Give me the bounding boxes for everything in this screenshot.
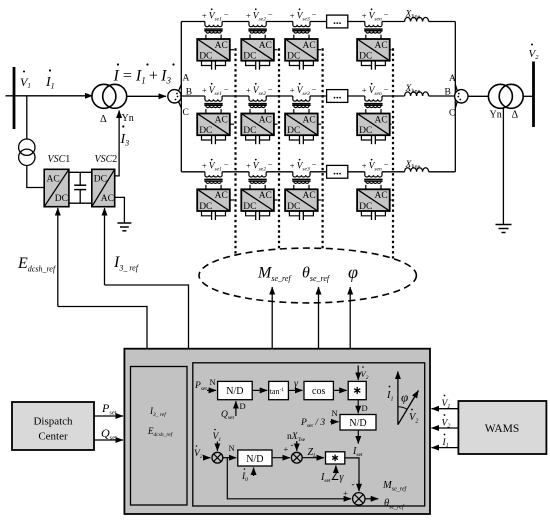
svg-text:N: N xyxy=(210,377,216,387)
series transformer TB4 xyxy=(364,96,382,114)
svg-text:AC: AC xyxy=(215,191,228,201)
svg-text:DC: DC xyxy=(287,202,300,212)
svg-text:VSC2: VSC2 xyxy=(95,154,118,165)
label +Vse3- of module A3 xyxy=(290,8,317,22)
svg-text:AC: AC xyxy=(302,191,315,201)
wire mult-circle1 to ND3 xyxy=(223,457,237,459)
wire V2 from WAMS xyxy=(432,427,459,429)
label V2 wams xyxy=(442,414,451,429)
svg-text:DC: DC xyxy=(94,175,107,185)
wire E_dcsh_ref routing xyxy=(58,307,147,349)
svg-text:AC: AC xyxy=(374,41,387,51)
svg-text:+: + xyxy=(362,161,367,171)
wire mult3 output corner xyxy=(345,458,359,491)
label B left xyxy=(186,87,192,97)
wire shunt tap down xyxy=(26,96,28,139)
node splitter left (3-phase) xyxy=(168,90,181,103)
dashed ellipse (modulation references) xyxy=(199,248,416,303)
feedback wire to output sum xyxy=(227,458,351,499)
wire V2 to mult-circle 1 xyxy=(204,457,211,459)
label V1 xyxy=(20,71,31,91)
svg-text:φ: φ xyxy=(401,390,408,405)
block N/D 3 xyxy=(238,450,272,466)
svg-text:N/D: N/D xyxy=(349,418,366,429)
label P_set input xyxy=(101,401,117,417)
label VSC2 xyxy=(95,154,118,165)
svg-text:B: B xyxy=(445,87,451,97)
svg-text:+: + xyxy=(202,85,207,95)
label N at ND3 xyxy=(229,443,235,453)
svg-text:AC: AC xyxy=(259,41,272,51)
svg-text:-: - xyxy=(291,440,294,450)
converter AC/DC block B4 xyxy=(357,114,390,137)
dc-link dotted line 4 xyxy=(392,48,394,258)
label I0 dot xyxy=(241,468,248,483)
label +Vsen- of module C4 xyxy=(362,159,389,173)
svg-text:N/D: N/D xyxy=(226,386,243,397)
wire cos to mult1 xyxy=(333,389,346,391)
wire nXTse into sum (arrow down) xyxy=(296,441,298,451)
label Yn of TR1 xyxy=(122,113,134,124)
dc-link stub B4 xyxy=(390,123,392,125)
control signal E_dcsh_ref to VSC1 (arrow up) xyxy=(57,208,59,307)
label X_line phase C xyxy=(405,160,421,171)
svg-text:Yn: Yn xyxy=(490,110,502,121)
label N at ND2 xyxy=(332,408,338,418)
label phi in ellipse xyxy=(348,262,358,282)
svg-text:AC: AC xyxy=(259,191,272,201)
label X_line phase A xyxy=(405,10,421,21)
wire sum to mult3 xyxy=(302,457,324,459)
wire TR3 to VSC1 xyxy=(27,166,44,188)
wire right vertical feeder xyxy=(454,22,456,172)
svg-text:−: − xyxy=(268,9,273,19)
wire I1 from WAMS xyxy=(432,447,459,449)
wire P_set to ND1 xyxy=(207,389,216,391)
svg-text:AC: AC xyxy=(302,41,315,51)
svg-text:...: ... xyxy=(333,15,342,27)
series transformer TB3 xyxy=(292,96,310,114)
wire TR2 to bus V2 xyxy=(523,95,533,97)
wire Pset3 to ND2 xyxy=(330,421,339,423)
converter VSC1 xyxy=(44,169,69,206)
dc-link stub B2 xyxy=(274,123,278,125)
wire VSC2 to I3 riser xyxy=(115,171,119,176)
label P_set xyxy=(194,381,207,392)
label Z_L xyxy=(308,447,317,459)
wire V1 from WAMS xyxy=(432,408,459,410)
series transformer TB1 xyxy=(204,96,222,114)
dc-link stub A1 xyxy=(230,49,234,51)
dc link capacitor xyxy=(74,172,86,203)
svg-text:DC: DC xyxy=(359,202,372,212)
svg-text:+: + xyxy=(202,161,207,171)
line reactance X_line phase B xyxy=(405,92,429,96)
svg-text:D: D xyxy=(362,403,368,413)
label plus at output sum xyxy=(343,488,348,498)
svg-text:+: + xyxy=(290,161,295,171)
converter AC/DC block C2 xyxy=(241,189,274,212)
series transformer TC1 xyxy=(204,172,222,189)
block arctan xyxy=(269,381,289,399)
label I3_ref xyxy=(113,254,140,273)
wire node to TR2 xyxy=(468,95,489,97)
label V2 at mult1 xyxy=(361,366,369,381)
svg-text:DC: DC xyxy=(359,126,372,136)
dc link wires xyxy=(69,172,92,203)
svg-text:-: - xyxy=(352,479,355,489)
block N/D 2 xyxy=(340,415,376,431)
svg-text:AC: AC xyxy=(47,175,60,185)
svg-text:DC: DC xyxy=(199,126,212,136)
wire output arrow xyxy=(365,498,378,500)
svg-text:VSC1: VSC1 xyxy=(48,154,71,165)
series transformer TC3 xyxy=(292,172,310,189)
svg-text:...: ... xyxy=(333,165,342,177)
dc-link stub C1 xyxy=(230,199,234,201)
svg-text:+: + xyxy=(284,444,289,454)
svg-text:−: − xyxy=(224,84,229,94)
label +Vse3- of module C3 xyxy=(290,159,317,173)
label M_se_ref in ellipse xyxy=(257,265,292,284)
label +Vsen- of module A4 xyxy=(362,8,389,22)
converter AC/DC block B3 xyxy=(285,114,318,137)
svg-text:A: A xyxy=(183,74,190,84)
svg-text:D: D xyxy=(240,401,246,411)
label M_se_ref output xyxy=(382,480,408,493)
svg-text:AC: AC xyxy=(259,115,272,125)
converter AC/DC block C1 xyxy=(197,189,230,212)
wire mult1 to ND2 (arrow down) xyxy=(357,400,359,414)
label C right xyxy=(449,109,455,119)
label plus at sum xyxy=(284,444,289,454)
label +Vsen- of module B4 xyxy=(362,83,389,97)
phase C line xyxy=(181,171,455,173)
ellipsis box phase A xyxy=(327,15,348,28)
label +Vse1- of module C1 xyxy=(202,159,229,173)
dc-link dotted line 3 xyxy=(322,48,324,248)
svg-text:+: + xyxy=(246,161,251,171)
svg-text:C: C xyxy=(183,108,189,118)
wire ND1 to atan xyxy=(252,389,267,391)
svg-text:−: − xyxy=(312,84,317,94)
dc capacitor A3 xyxy=(289,61,313,70)
label P_set/3 xyxy=(300,418,325,429)
dc-link stub A3 xyxy=(318,49,321,51)
label Yn of TR2 xyxy=(490,110,502,121)
converter AC/DC block B2 xyxy=(241,114,274,137)
svg-text:+: + xyxy=(246,85,251,95)
phase A line xyxy=(181,21,455,23)
svg-text:+: + xyxy=(202,10,207,20)
label V1 wams xyxy=(442,395,451,410)
multiplier circle 1 xyxy=(212,452,223,463)
inner box references xyxy=(131,367,188,506)
series transformer TA1 xyxy=(204,22,222,40)
label X_line phase B xyxy=(405,84,421,95)
svg-text:+: + xyxy=(362,85,367,95)
label +Vse2- of module C2 xyxy=(246,159,273,173)
dc-link dotted line 1 xyxy=(234,48,236,255)
wire right node to phase C xyxy=(455,102,457,108)
dc-link stub C3 xyxy=(318,199,321,201)
svg-text:−: − xyxy=(224,9,229,19)
phase B line xyxy=(180,95,455,97)
label phi phasor xyxy=(401,390,408,405)
wire V2 into mult1 (arrow down) xyxy=(357,366,359,380)
svg-text:−: − xyxy=(268,160,273,170)
svg-text:AC: AC xyxy=(374,115,387,125)
label equation I = I1 + I3 xyxy=(113,63,175,85)
block multiplier 3 xyxy=(326,452,345,464)
shunt transformer TR3 xyxy=(19,139,35,166)
wire Iset-gamma into mult3 (arrow up) xyxy=(335,466,337,472)
line reactance X_line phase C xyxy=(405,168,429,172)
svg-text:−: − xyxy=(312,9,317,19)
WAMS box xyxy=(458,401,546,454)
svg-text:+: + xyxy=(343,488,348,498)
transformer TR1 (delta-Yn) xyxy=(92,84,127,108)
ground symbol VSC2 xyxy=(117,223,131,231)
label I3_ref inner xyxy=(149,406,167,418)
series transformer TA4 xyxy=(364,22,382,40)
wire right node to phase A xyxy=(455,85,457,92)
series transformer TC2 xyxy=(248,172,266,189)
label V2 xyxy=(529,44,540,62)
converter AC/DC block C3 xyxy=(285,189,318,212)
wire I0 into ND3 (arrow up) xyxy=(253,468,255,477)
wire V1 into mult-circle 1 (arrow down) xyxy=(216,442,218,451)
phasor I1 arrow xyxy=(397,372,399,425)
svg-text:+: + xyxy=(290,10,295,20)
dc-link stub B3 xyxy=(318,123,321,125)
converter AC/DC block A1 xyxy=(197,39,230,62)
wire ND2 down I_set (arrow) xyxy=(357,430,359,444)
svg-text:−: − xyxy=(384,84,389,94)
dc capacitor A4 xyxy=(361,61,385,70)
ellipsis box phase B xyxy=(327,90,348,103)
label Delta of TR2 xyxy=(512,110,519,121)
block N/D 1 xyxy=(218,381,253,399)
wire bus to transformer with current I1 xyxy=(6,95,93,97)
svg-text:AC: AC xyxy=(302,115,315,125)
svg-text:Δ: Δ xyxy=(512,110,519,121)
svg-text:cos: cos xyxy=(312,386,325,397)
svg-text:DC: DC xyxy=(287,126,300,136)
dc capacitor B4 xyxy=(361,135,385,144)
label minus at output sum xyxy=(352,479,355,489)
svg-text:−: − xyxy=(268,84,273,94)
line reactance X_line phase A xyxy=(405,17,429,21)
label minus at sum xyxy=(291,440,294,450)
converter AC/DC block A2 xyxy=(241,39,274,62)
bus bar V1 (left busbar) xyxy=(13,67,16,129)
series transformer TC4 xyxy=(364,172,382,189)
label Q_set input xyxy=(101,426,117,442)
svg-text:DC: DC xyxy=(199,52,212,62)
ellipsis box phase C xyxy=(327,165,348,178)
label I1 phasor xyxy=(386,386,394,403)
label E_dcsh_ref inner xyxy=(147,426,174,438)
control signal I3_ref to VSC2 (arrow up) xyxy=(104,208,106,285)
wire I3_ref routing xyxy=(105,285,189,348)
dc-link stub A4 xyxy=(390,49,392,51)
label E_dcsh_ref xyxy=(17,255,57,274)
dc capacitor B1 xyxy=(202,135,226,144)
phasor angle arc xyxy=(398,407,407,410)
wire Q_set to ND1 (arrow up) xyxy=(235,401,237,416)
label I_set angle gamma xyxy=(320,472,344,484)
label B right xyxy=(445,87,451,97)
label A left xyxy=(183,74,190,84)
svg-text:−: − xyxy=(384,9,389,19)
control block (outer) xyxy=(124,349,430,514)
svg-text:AC: AC xyxy=(374,191,387,201)
svg-text:AC: AC xyxy=(215,41,228,51)
label I3 xyxy=(120,125,130,147)
wire node to phase C (diagonal) xyxy=(179,102,182,108)
dc capacitor C4 xyxy=(361,211,385,220)
dispatch center box xyxy=(12,402,94,450)
wire P_set into control block xyxy=(94,415,123,417)
block multiplier 1 xyxy=(348,381,366,399)
svg-text:Δ: Δ xyxy=(100,114,107,125)
label +Vse3- of module B3 xyxy=(290,83,317,97)
label gamma xyxy=(294,379,299,390)
transformer TR2 (Yn-delta) xyxy=(488,84,523,108)
dc-link dotted line 2 xyxy=(278,48,280,249)
dc capacitor A2 xyxy=(246,61,270,70)
dc-link stub C4 xyxy=(390,199,392,201)
svg-text:DC: DC xyxy=(243,202,256,212)
dc-link stub B1 xyxy=(230,123,234,125)
series transformer TB2 xyxy=(248,96,266,114)
svg-text:DC: DC xyxy=(287,52,300,62)
bus bar V2 (right busbar) xyxy=(532,62,535,128)
converter AC/DC block C4 xyxy=(357,189,390,212)
label D at ND2 xyxy=(362,403,368,413)
dc capacitor A1 xyxy=(202,61,226,70)
converter VSC2 xyxy=(92,169,115,206)
label +Vse2- of module A2 xyxy=(246,8,273,22)
wire ND3 to sum circle xyxy=(272,457,290,459)
converter AC/DC block A3 xyxy=(285,39,318,62)
svg-text:Iset∠γ: Iset∠γ xyxy=(320,472,344,484)
svg-text:Yn: Yn xyxy=(122,113,134,124)
node splitter right (3-phase) xyxy=(455,90,468,103)
svg-text:DC: DC xyxy=(243,126,256,136)
output sum circle xyxy=(353,493,365,505)
svg-text:−: − xyxy=(384,160,389,170)
series transformer TA3 xyxy=(292,22,310,40)
label Q_set xyxy=(221,410,234,421)
svg-text:−: − xyxy=(312,160,317,170)
svg-text:+: + xyxy=(246,10,251,20)
svg-text:Center: Center xyxy=(38,431,68,443)
svg-text:C: C xyxy=(449,109,455,119)
label V2 dot left xyxy=(194,445,203,460)
svg-text:Dispatch: Dispatch xyxy=(33,416,73,428)
dc-link stub A2 xyxy=(274,49,278,51)
svg-text:DC: DC xyxy=(359,52,372,62)
label theta_se_ref in ellipse xyxy=(302,265,331,284)
label D below ND1 xyxy=(240,401,246,411)
svg-text:−: − xyxy=(224,160,229,170)
label A right xyxy=(449,74,456,84)
svg-text:A: A xyxy=(449,74,456,84)
svg-text:AC: AC xyxy=(215,115,228,125)
svg-text:Pset / 3: Pset / 3 xyxy=(300,418,325,429)
arrow M_se_ref up xyxy=(271,287,273,348)
label theta_se_ref output xyxy=(384,498,405,511)
label nX_Tse xyxy=(287,432,306,443)
wire I3 into TR1 (arrow up) xyxy=(118,111,120,172)
svg-text:N: N xyxy=(332,408,338,418)
phasor V2 arrow xyxy=(398,391,419,425)
label I1 wams xyxy=(442,434,449,449)
wire atan to cos xyxy=(288,389,302,391)
label +Vse1- of module A1 xyxy=(202,8,229,22)
sum circle xyxy=(291,452,302,463)
label V1 dot xyxy=(213,429,222,443)
dc capacitor C1 xyxy=(202,211,226,220)
label N above P_set wire xyxy=(210,377,216,387)
svg-text:+: + xyxy=(362,10,367,20)
dc-link stub C2 xyxy=(274,199,278,201)
label VSC1 xyxy=(48,154,71,165)
svg-text:WAMS: WAMS xyxy=(485,423,520,435)
svg-text:AC: AC xyxy=(101,194,114,204)
series transformer TA2 xyxy=(248,22,266,40)
arrow theta_se_ref up xyxy=(318,287,320,348)
converter AC/DC block A4 xyxy=(357,39,390,62)
dc capacitor C3 xyxy=(289,211,313,220)
wire node to phase A (diagonal) xyxy=(179,85,182,92)
dc capacitor C2 xyxy=(246,211,270,220)
inner box control diagram xyxy=(193,363,425,506)
wire TR1 to node with arrow xyxy=(127,95,166,97)
block cos xyxy=(304,381,333,399)
label Delta of TR1 xyxy=(100,114,107,125)
svg-text:DC: DC xyxy=(55,194,68,204)
label V2 phasor xyxy=(409,409,418,425)
converter AC/DC block B1 xyxy=(197,114,230,137)
wire TR2 neutral to ground xyxy=(502,108,504,225)
svg-text:DC: DC xyxy=(199,202,212,212)
label I1 xyxy=(45,69,55,90)
wire left vertical feeder xyxy=(180,22,182,172)
label I_set xyxy=(352,446,363,458)
ground symbol right xyxy=(496,225,512,233)
svg-text:N/D: N/D xyxy=(246,454,263,465)
label +Vse1- of module B1 xyxy=(202,83,229,97)
label +Vse2- of module B2 xyxy=(246,83,273,97)
svg-text:φ: φ xyxy=(348,262,358,282)
dc capacitor B3 xyxy=(289,135,313,144)
arrow phi up xyxy=(349,287,351,348)
svg-text:+: + xyxy=(290,85,295,95)
dc capacitor B2 xyxy=(246,135,270,144)
svg-text:N: N xyxy=(229,443,235,453)
label C left xyxy=(183,108,189,118)
wire Q_set into control block xyxy=(94,439,123,441)
svg-text:...: ... xyxy=(333,90,342,102)
svg-text:DC: DC xyxy=(243,52,256,62)
wire VSC2 to ground xyxy=(115,197,125,223)
